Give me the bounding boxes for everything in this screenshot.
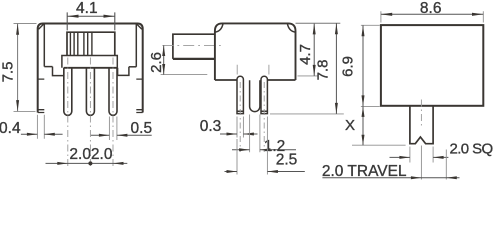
end view shaft centerline [420, 100, 422, 128]
dimension 8.6 extension lines [381, 11, 483, 22]
side view rear terminal [261, 76, 267, 113]
dimension 0.4 extension lines [37, 115, 44, 139]
dimension 7.5 arrows [16, 24, 19, 112]
dimension 4.1 arrows [67, 15, 115, 18]
dimension 7.8 bottom extension [270, 113, 344, 115]
front view terminal 3 [109, 68, 117, 116]
dimension 1.2 extension lines [250, 115, 260, 153]
front view cover bottom left [44, 66, 52, 68]
side view knob bottom edge [173, 58, 215, 60]
svg-text:2.0: 2.0 [91, 146, 113, 163]
front view left fold edge [43, 24, 45, 67]
dimension 2.0 SQ line and arrows [390, 156, 449, 158]
dimension 2.0 TRAVEL arrows [411, 176, 457, 179]
front view right chamfer line [137, 24, 142, 29]
dimension 2.0 2.0 arrows [57, 162, 123, 165]
dimension 7.5 extension lines [14, 24, 37, 112]
dimension 7.8 arrows [335, 23, 338, 114]
svg-text:X: X [345, 117, 355, 134]
side view terminal centerlines [240, 82, 264, 152]
front view base bottom edge [64, 67, 118, 69]
side view top-right corner lens arc [287, 23, 295, 32]
svg-text:7.5: 7.5 [0, 62, 16, 83]
dimension 4.7 line [313, 23, 315, 76]
dimension 2.0 2.0 line [46, 162, 128, 164]
dimension 7.5 line [17, 24, 19, 112]
side view knob centerline [162, 44, 221, 46]
side view base bottom left segment [215, 79, 237, 81]
dimension 2.6 line [163, 45, 165, 74]
dimension X extension line [352, 144, 406, 146]
dimension 0.3 line and arrows [220, 133, 258, 135]
front view right fold edge [135, 24, 137, 67]
svg-text:7.8: 7.8 [314, 60, 331, 81]
dimension 8.6 arrows [381, 13, 483, 16]
front view left staking tab [53, 67, 64, 76]
dimension 1.2 line and arrows [232, 149, 296, 151]
dimension 2.5 extension lines [237, 117, 267, 175]
end view box [381, 25, 483, 106]
side view base bottom right segment [268, 79, 296, 81]
dimension 7.8 top extension [296, 22, 341, 24]
front view knob flange [62, 56, 117, 68]
front view terminal 1 [64, 68, 72, 116]
svg-text:2.0: 2.0 [69, 146, 91, 163]
dimension 2.0 TRAVEL line [322, 177, 459, 179]
svg-text:0.5: 0.5 [131, 120, 153, 137]
end view shaft with notch [410, 106, 433, 144]
dimension 8.6 line [381, 13, 483, 15]
dimension X arrows [362, 106, 365, 145]
front view cover outline [38, 24, 143, 113]
dimension 7.8 line [335, 23, 337, 114]
dimension 2.5 line and arrows [225, 171, 305, 173]
front view cover bottom right [129, 66, 136, 68]
front view knob serrations [70, 32, 92, 55]
side view top-left corner lens arc [215, 23, 223, 32]
dimension 2.0 TRAVEL extensions [421, 146, 446, 180]
svg-text:2.0 TRAVEL: 2.0 TRAVEL [322, 163, 407, 180]
svg-text:2.0 SQ: 2.0 SQ [449, 141, 492, 158]
front view left side pin ticks [38, 79, 45, 112]
front view serrated knob [67, 32, 115, 55]
dimension X line [362, 106, 364, 145]
side view knob [173, 34, 215, 59]
dimension 2.6 extension line [161, 74, 208, 76]
side view body outline [215, 23, 296, 80]
dimension 4.1 extension lines [67, 12, 115, 30]
dimension 2.0 SQ extension lines [410, 147, 433, 163]
dimension 0.3 extension lines [237, 117, 243, 138]
front view terminal 2 [86, 68, 94, 116]
dimension 4.1 line [67, 15, 115, 17]
dimension 6.9 arrows [362, 25, 365, 106]
dimension 6.9 extension lines [361, 25, 380, 106]
dimension 4.7 extension line [298, 75, 318, 77]
svg-text:2.6: 2.6 [148, 52, 165, 73]
side view terminal centerline ticks [237, 65, 269, 75]
svg-text:4.7: 4.7 [297, 44, 314, 65]
front view terminal centerlines [68, 58, 113, 167]
front view right side pin ticks [136, 79, 142, 112]
dimension 2.6 arrows [162, 45, 165, 74]
dimension 6.9 line [362, 25, 364, 106]
dimension 0.5 line and arrows [91, 134, 152, 136]
side view bracket pin [250, 80, 260, 111]
svg-text:4.1: 4.1 [76, 0, 98, 17]
dimension 4.7 arrows [313, 23, 316, 76]
svg-text:6.9: 6.9 [339, 56, 356, 77]
dimension 0.4 line and arrows [21, 133, 63, 135]
svg-text:2.5: 2.5 [276, 152, 298, 169]
dimension 2.0 2.0 middle dot [88, 161, 92, 165]
front view right staking tab [118, 67, 129, 76]
svg-text:0.4: 0.4 [0, 120, 21, 137]
dimension 0.5 extension lines [109, 117, 117, 141]
front view left chamfer line [39, 24, 44, 29]
side view front terminal [237, 76, 243, 113]
svg-text:8.6: 8.6 [420, 0, 442, 17]
svg-text:0.3: 0.3 [200, 118, 222, 135]
